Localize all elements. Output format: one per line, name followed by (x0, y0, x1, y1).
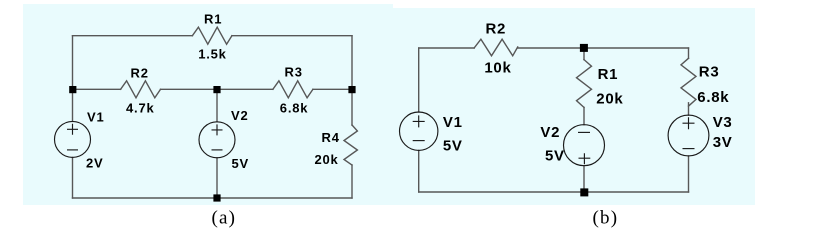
resistor R1 (192, 27, 231, 44)
node top junction (b) (580, 44, 588, 52)
wire middle branch upper stub (b) (583, 48, 585, 60)
node bottom junction (b) (580, 188, 588, 196)
wire top left segment (a) (73, 35, 193, 37)
voltage source V3 (b) (668, 115, 709, 156)
wire V3 bottom branch (b) (688, 156, 690, 192)
svg-text:5V: 5V (545, 148, 565, 165)
resistor R2 (121, 81, 161, 98)
svg-text:V2: V2 (540, 124, 560, 141)
svg-text:V3: V3 (713, 114, 733, 131)
wire right vertical to V3 (b) (688, 103, 690, 115)
svg-text:R3: R3 (699, 64, 720, 81)
wire left vertical (a) top section (72, 36, 74, 122)
voltage source V1 (a) (55, 121, 91, 157)
resistor R3 (273, 81, 313, 98)
wire top right segment (a) (232, 35, 352, 37)
svg-text:R2: R2 (486, 21, 507, 38)
wire V2 branch lower (a) (216, 158, 218, 198)
wire middle left segment (a) (73, 88, 121, 90)
svg-text:(b): (b) (593, 208, 619, 229)
svg-text:(a): (a) (212, 207, 237, 228)
svg-text:6.8k: 6.8k (697, 89, 729, 106)
wire middle branch to V2 (b) (583, 107, 585, 124)
wire bottom (b) (419, 191, 689, 193)
svg-text:V1: V1 (87, 109, 105, 124)
wire bottom (a) (73, 197, 353, 199)
resistor R1 (b) (577, 60, 592, 108)
svg-text:1.5k: 1.5k (198, 46, 227, 61)
svg-text:R3: R3 (285, 65, 303, 80)
wire V2 branch upper (a) (216, 89, 218, 122)
resistor R3 (b) (681, 58, 696, 106)
node bottom junction (a) (213, 194, 220, 201)
svg-text:5V: 5V (443, 137, 463, 154)
node center middle junction (a) (213, 86, 220, 93)
svg-text:5V: 5V (232, 156, 250, 171)
voltage source V1 (b) (400, 112, 438, 150)
voltage source V2 (b) (564, 125, 605, 166)
node right middle junction (a) (348, 86, 355, 93)
svg-text:2V: 2V (86, 156, 104, 171)
svg-text:10k: 10k (484, 59, 511, 76)
svg-text:20k: 20k (596, 91, 623, 108)
svg-text:R1: R1 (598, 66, 619, 83)
resistor R2 (b) (474, 39, 518, 56)
svg-text:3V: 3V (713, 134, 733, 151)
wire top right segment (b) (518, 47, 689, 49)
wire V2 bottom branch (b) (583, 166, 585, 192)
resistor R4 (344, 125, 357, 165)
wire middle right segment (a) (313, 88, 352, 90)
svg-text:R4: R4 (322, 130, 340, 145)
svg-text:20k: 20k (315, 152, 339, 167)
wire left vertical (b) upper section (418, 48, 420, 112)
wire right vertical (a) lower section (351, 165, 353, 198)
wire left vertical (a) bottom section (72, 157, 74, 198)
svg-text:V1: V1 (443, 114, 463, 131)
svg-text:V2: V2 (231, 108, 249, 123)
wire left vertical (b) lower section (418, 150, 420, 192)
svg-text:4.7k: 4.7k (126, 101, 155, 116)
svg-text:R1: R1 (204, 11, 222, 26)
node left middle junction (a) (69, 86, 76, 93)
voltage source V2 (a) (199, 122, 235, 158)
svg-text:6.8k: 6.8k (280, 101, 309, 116)
wire right vertical upper stub (b) (688, 48, 690, 58)
wire right vertical (a) upper section (351, 36, 353, 125)
wire middle center segment (a) (161, 88, 273, 90)
svg-text:R2: R2 (131, 65, 149, 80)
wire top left segment (b) (419, 47, 474, 49)
